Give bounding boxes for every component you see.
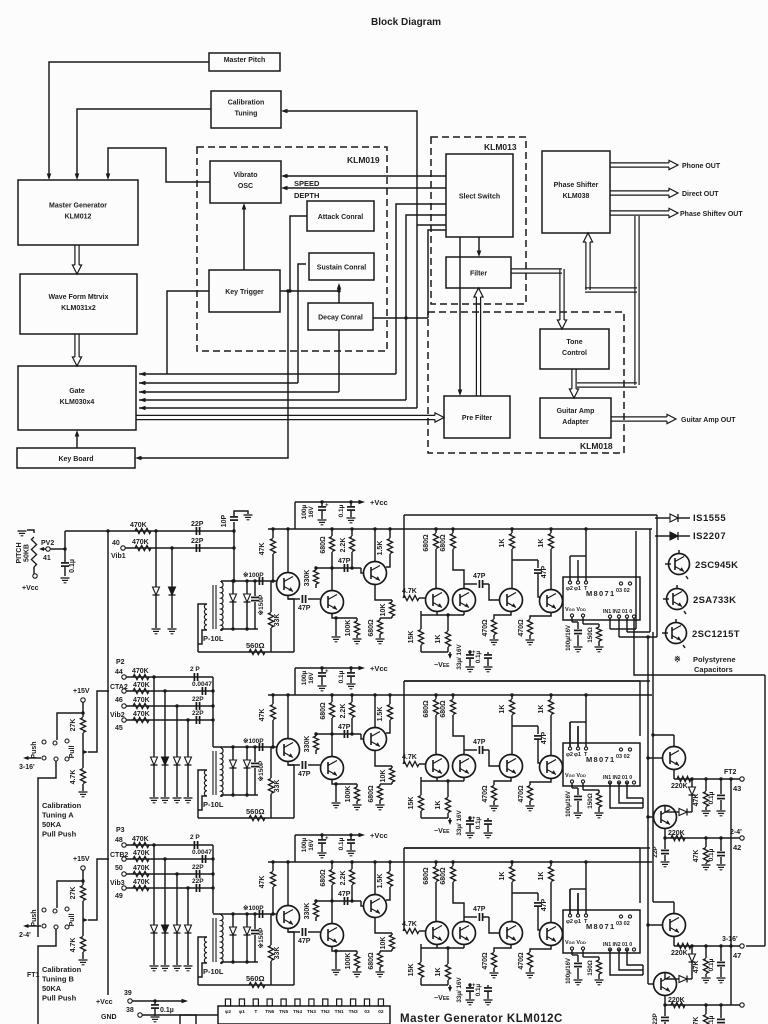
wire row1 input rail top <box>65 530 234 532</box>
svg-text:Key Board: Key Board <box>58 456 93 463</box>
capacitor 0.1u rail row2 <box>350 668 352 672</box>
potentiometer PV2 PITCH 50KB <box>31 537 36 567</box>
supply rail row3 <box>268 861 652 863</box>
loop bottom row1 <box>610 628 636 630</box>
IC top pin wires row1 <box>569 556 571 581</box>
resistor 220K a row2 <box>677 776 691 781</box>
transformer secondary leads row1 <box>220 581 222 582</box>
capacitor 22P row1 line2 <box>195 544 197 552</box>
svg-text:P2: P2 <box>116 659 125 666</box>
capacitor 0.1u out1 row3 <box>720 946 722 961</box>
wire Q1 emitter row3 <box>288 928 294 985</box>
svg-text:KLM018: KLM018 <box>580 441 613 451</box>
svg-text:100K: 100K <box>345 620 352 637</box>
arrow into Master Generator pin1 <box>47 174 52 181</box>
emitter join row1 <box>436 611 438 615</box>
transistor Q8 row2 2SC1215T <box>663 747 686 770</box>
transistor Q3 row3 2SC945K <box>364 895 387 918</box>
resistor 220K b row2 <box>671 835 685 840</box>
block Master Generator KLM012 <box>18 180 138 245</box>
svg-text:470K: 470K <box>133 697 150 704</box>
resistor 1K c3 row1 <box>511 529 513 533</box>
svg-text:15K: 15K <box>408 964 415 977</box>
svg-text:680Ω: 680Ω <box>368 952 375 970</box>
transformer primary leads row3 <box>198 937 207 985</box>
svg-text:P-10L: P-10L <box>203 800 224 809</box>
svg-text:47K: 47K <box>693 850 700 863</box>
input join vertical row3 <box>212 845 214 913</box>
svg-text:22P: 22P <box>192 864 204 871</box>
diode row2 d1 IS1555 <box>153 677 155 757</box>
svg-text:0.1µ: 0.1µ <box>708 791 715 804</box>
ground 10P <box>244 514 253 516</box>
wire Calibration Tuning to Master Generator <box>77 109 211 177</box>
svg-text:SPEED: SPEED <box>294 179 320 188</box>
svg-text:39: 39 <box>124 990 132 997</box>
bottom wire row3 <box>198 984 294 986</box>
diode IS1555 row1 a <box>155 531 157 587</box>
svg-text:KLM030x4: KLM030x4 <box>60 399 95 406</box>
svg-text:0.0047: 0.0047 <box>192 849 212 856</box>
diode row3 d2 IS2207 <box>164 859 166 925</box>
DIP pin 6 <box>295 999 300 1006</box>
svg-text:2SA733K: 2SA733K <box>693 595 736 606</box>
bus join row3 line <box>746 945 765 947</box>
svg-text:150Ω: 150Ω <box>587 627 594 643</box>
hollow arrow Master Generator to Wave Form Matrix <box>74 245 76 265</box>
transistor Q6 row2 2SC945K <box>500 755 523 778</box>
wire coupling node row3 <box>316 900 361 902</box>
legend transistor 2SC1215T <box>666 623 687 644</box>
block Tone Control <box>540 329 609 369</box>
rectifier diode a row3 <box>232 914 234 927</box>
svg-text:100µ: 100µ <box>301 837 308 852</box>
svg-text:M8071: M8071 <box>586 755 615 764</box>
wire 10K to 680 row1 <box>380 617 392 619</box>
svg-text:45: 45 <box>115 725 123 732</box>
block Decay Control <box>308 303 373 330</box>
resistor 470K row1 top <box>135 528 151 533</box>
ground 680 e row3 <box>376 971 385 973</box>
ground 470 e2 row3 <box>526 972 535 974</box>
transistor Q6 row1 2SC945K <box>500 589 523 612</box>
wire switch lower row2 <box>38 761 56 937</box>
svg-text:Tuning A: Tuning A <box>42 811 74 820</box>
legend transistor 2SA733K <box>667 589 688 610</box>
ground 100u vdd row1 <box>574 646 583 648</box>
wiper arrow row3 <box>83 918 88 922</box>
svg-text:15K: 15K <box>408 631 415 644</box>
svg-text:1K: 1K <box>538 705 545 714</box>
wire Q8 collector row2 <box>673 735 675 747</box>
wire DEPTH line <box>284 187 446 189</box>
svg-text:M8071: M8071 <box>586 589 615 598</box>
arrow Key Board to Gate <box>76 433 78 448</box>
svg-text:Vibrato: Vibrato <box>234 172 258 179</box>
wire Q8 collector row3 <box>673 902 675 914</box>
resistor 680 q2 row2 <box>331 695 333 702</box>
wire to switch row3 <box>57 881 83 908</box>
right margin bus vertical <box>764 675 766 946</box>
wire Q3 emitter row3 <box>375 917 392 933</box>
resistor 470K row2 line4 <box>126 719 213 721</box>
svg-text:680Ω: 680Ω <box>320 536 327 554</box>
ground diode row2 d2 <box>161 797 170 799</box>
block Master Pitch <box>209 53 280 71</box>
wire coupling node row2 <box>316 733 361 735</box>
svg-text:40: 40 <box>112 540 120 547</box>
transistor Q7 row3 2SC945K <box>540 923 563 946</box>
ground 100K row2 <box>353 804 362 806</box>
svg-text:PITCH: PITCH <box>16 543 23 564</box>
ground 0.1u vee row2 <box>484 832 493 834</box>
wire Q8 emitter row3 <box>673 936 675 946</box>
capacitor 0.1u bottom <box>154 1001 156 1004</box>
wire Q9 emitter row3 <box>664 995 666 1005</box>
dashed box KLM018 <box>428 312 624 453</box>
arrow into Master Generator pin2 <box>75 174 80 181</box>
transistor Q1 row1 2SC945K <box>277 573 300 596</box>
input join vertical row2 <box>212 677 214 747</box>
svg-text:680Ω: 680Ω <box>368 619 375 637</box>
svg-text:47K: 47K <box>259 709 266 722</box>
terminal 38 <box>138 1013 142 1017</box>
dashed box KLM019 <box>197 147 387 351</box>
svg-text:47P: 47P <box>473 739 486 746</box>
wire Q3 collector row3 <box>374 862 376 895</box>
wire riser Select Switch to Gate line4 <box>406 215 446 400</box>
resistor 47K bias row2 <box>272 695 274 704</box>
capacitor 100P row1 <box>258 577 260 585</box>
hollow arrow down into Tone Control <box>559 269 561 320</box>
svg-text:50KB: 50KB <box>24 544 31 562</box>
resistor 47K bias row3 <box>272 862 274 871</box>
svg-text:Pre Filter: Pre Filter <box>462 415 493 422</box>
resistor 15K row2 <box>420 777 422 795</box>
wire Master Pitch to Master Generator <box>49 62 209 177</box>
svg-text:2.2K: 2.2K <box>340 871 347 886</box>
svg-text:3-16': 3-16' <box>19 764 35 771</box>
wire wiper row2 <box>88 691 109 752</box>
svg-text:220K: 220K <box>671 783 688 790</box>
wire Select Switch to Pre Filter <box>459 237 461 393</box>
svg-text:Calibration: Calibration <box>42 801 82 810</box>
terminal out1 row3 <box>740 944 744 948</box>
block Guitar Amp Adapter <box>540 398 611 438</box>
diode row2 d2 IS2207 <box>164 691 166 757</box>
resistor 470K row3 line1 <box>126 844 213 846</box>
ground Q2 emitter row1 <box>335 618 337 636</box>
wire Vibrato OSC to Master Generator <box>108 148 210 182</box>
svg-text:OSC: OSC <box>238 183 253 190</box>
svg-text:47: 47 <box>733 951 741 960</box>
+Vcc arrow row1 <box>359 500 366 505</box>
svg-text:φ1: φ1 <box>574 752 581 758</box>
hollow arrow Direct OUT <box>610 190 669 192</box>
wire Q1 collector row1 <box>287 529 289 573</box>
wire SPEED line <box>284 175 446 177</box>
wire riser Select to Gate line5 <box>428 230 446 318</box>
svg-text:2-4': 2-4' <box>730 829 742 836</box>
svg-text:M8071: M8071 <box>586 922 615 931</box>
diode IS2207 row1 b <box>171 548 173 587</box>
resistor 470 e1 row3 <box>494 944 511 952</box>
arrow SPEED into Vibrato OSC <box>281 174 288 179</box>
svg-text:33µ/ 16V: 33µ/ 16V <box>456 810 463 836</box>
ground Q2 emitter row2 <box>335 784 337 802</box>
hollow arrow Phase Shifter OUT <box>610 210 669 212</box>
svg-text:Tone: Tone <box>566 339 582 346</box>
resistor 680 c2 row2 <box>452 695 454 699</box>
ground under 0.1u <box>61 577 70 579</box>
resistor 4.7K loop row3 <box>403 928 419 933</box>
pot wiper arrow <box>39 547 44 551</box>
svg-text:TN3: TN3 <box>307 1009 316 1015</box>
capacitor 22P row1 top <box>195 527 197 535</box>
svg-text:10K: 10K <box>380 937 387 950</box>
svg-text:220K: 220K <box>671 950 688 957</box>
svg-text:−VEE: −VEE <box>434 662 450 669</box>
svg-text:33µ/ 16V: 33µ/ 16V <box>456 977 463 1003</box>
resistor 1.5K row3 <box>389 862 391 871</box>
resistor 470K row3 line3 <box>126 873 213 875</box>
wire Q1 emitter row2 <box>288 761 294 818</box>
svg-text:100µ/16V: 100µ/16V <box>566 625 572 651</box>
capacitor 100u 16V row1 <box>321 502 323 506</box>
resistor 680 e row3 <box>379 951 381 953</box>
ground 100K row1 <box>353 638 362 640</box>
loop right verticals row1 <box>656 515 658 637</box>
loop wire top row2 <box>404 680 650 682</box>
ground 150 row1 <box>595 646 604 648</box>
svg-text:TN5: TN5 <box>279 1009 288 1015</box>
svg-text:44: 44 <box>115 669 123 676</box>
resistor 10K row1 <box>391 600 393 602</box>
resistor 470K row2 line3 <box>126 705 213 707</box>
wire Q8 base row2 <box>648 757 663 759</box>
wire Q1 collector row3 <box>287 862 289 906</box>
svg-text:Phase Shifter: Phase Shifter <box>554 182 599 189</box>
wire Q1 emitter row1 <box>288 595 294 652</box>
svg-text:03 02: 03 02 <box>616 921 630 927</box>
resistor 33K row2 <box>270 747 272 778</box>
output line2 row2 <box>665 837 740 839</box>
svg-text:−VEE: −VEE <box>434 995 450 1002</box>
svg-text:Direct OUT: Direct OUT <box>682 191 719 198</box>
ground 470 e1 row2 <box>490 805 499 807</box>
svg-text:φ1: φ1 <box>574 919 581 925</box>
capacitor 100P row3 <box>258 910 260 918</box>
resistor 470 e2 row3 <box>530 945 551 952</box>
ground 100u vdd row3 <box>574 979 583 981</box>
wire wiper row3 <box>88 859 109 920</box>
resistor 330K row1 <box>315 568 317 570</box>
+Vcc arrow row3 <box>359 833 366 838</box>
ground 0.1u out1 row3 <box>717 977 726 979</box>
svg-text:0.1µ: 0.1µ <box>338 504 345 517</box>
capacitor 150P row3 <box>254 914 256 929</box>
arrow -VEE row3 <box>449 985 451 988</box>
svg-text:φ2: φ2 <box>225 1009 231 1015</box>
resistor 470 e1 row2 <box>494 777 511 785</box>
svg-text:4.7K: 4.7K <box>402 588 417 595</box>
transistor Q1 row3 2SC945K <box>277 906 300 929</box>
terminal 44 row2 <box>122 675 126 679</box>
wire base node row1 <box>221 580 277 582</box>
svg-text:TN3: TN3 <box>349 1009 358 1015</box>
capacitor 22P row3 line3 <box>195 870 197 878</box>
svg-text:16V: 16V <box>308 839 315 851</box>
terminal +15V row3 <box>81 866 85 870</box>
capacitor 33u 16V row2 <box>469 818 471 820</box>
svg-text:100µ/16V: 100µ/16V <box>566 958 572 984</box>
transformer secondary leads row3 <box>220 914 222 915</box>
svg-text:FT1: FT1 <box>27 972 40 979</box>
capacitor 22P row2 line3 <box>195 702 197 710</box>
capacitor 0.0047 row2 <box>201 687 203 695</box>
resistor 470K Vib1 <box>135 545 151 550</box>
resistor 680 e row1 <box>379 618 381 620</box>
svg-text:VGG VDD: VGG VDD <box>565 940 586 946</box>
svg-text:47P: 47P <box>541 731 548 744</box>
svg-text:2.2K: 2.2K <box>340 704 347 719</box>
terminal 48 row3 <box>122 843 126 847</box>
transformer P-10L row3 <box>204 937 207 963</box>
wire 10P to ground hook <box>234 511 248 516</box>
arrow Gate line5 <box>139 406 146 411</box>
ground diode row3 d3 <box>173 965 182 967</box>
svg-text:VGG VDD: VGG VDD <box>565 773 586 779</box>
double line Gate to Pre Filter <box>136 414 435 416</box>
svg-text:0.1µ: 0.1µ <box>338 670 345 683</box>
svg-text:Push: Push <box>31 909 38 926</box>
svg-text:47P: 47P <box>473 906 486 913</box>
hollow arrow Wave Form Matrix to Gate <box>74 334 76 357</box>
capacitor 47P q1q2 row2 <box>288 764 300 766</box>
svg-text:100µ: 100µ <box>301 504 308 519</box>
resistor 1K c4 row1 <box>550 529 552 533</box>
svg-text:22P: 22P <box>191 538 204 545</box>
resistor 4.7K row3 <box>82 920 84 936</box>
resistor 560 row1 <box>249 649 265 654</box>
capacitor 47P q2q3 row3 <box>343 897 345 905</box>
capacitor 0.1u vee row3 <box>487 985 489 987</box>
svg-text:+: + <box>325 503 329 509</box>
resistor 220K a row3 <box>677 943 691 948</box>
svg-text:Decay Conral: Decay Conral <box>318 315 363 322</box>
svg-text:P-10L: P-10L <box>203 634 224 643</box>
svg-text:Pull Push: Pull Push <box>42 830 77 839</box>
svg-text:※150P: ※150P <box>257 760 265 781</box>
resistor 1.5K row2 <box>389 695 391 704</box>
svg-text:KLM019: KLM019 <box>347 155 380 165</box>
svg-text:KLM031x2: KLM031x2 <box>61 305 96 312</box>
arrow +Vcc bottom <box>182 999 189 1004</box>
emitter join row2 <box>436 777 438 781</box>
supply rail row1 <box>268 528 652 530</box>
hollow arrow Phone OUT <box>610 162 669 164</box>
wire pot top <box>27 530 34 533</box>
capacitor 47P q2q3 row2 <box>343 730 345 738</box>
arrow into Master Generator pin3 <box>106 174 111 181</box>
svg-text:470Ω: 470Ω <box>482 619 489 637</box>
resistor 4.7K loop row2 <box>403 761 419 766</box>
svg-text:03 02: 03 02 <box>616 754 630 760</box>
svg-text:2SC945K: 2SC945K <box>695 560 738 571</box>
wire coupling node row1 <box>316 567 361 569</box>
resistor 47K out1 row2 <box>705 779 707 791</box>
transistor Q5 row1 2SA733K <box>453 589 476 612</box>
svg-text:※100P: ※100P <box>243 571 264 579</box>
svg-text:1K: 1K <box>435 968 442 977</box>
svg-text:470Ω: 470Ω <box>518 952 525 970</box>
svg-text:03: 03 <box>364 1009 370 1015</box>
terminal 40 Vib1 <box>121 546 125 550</box>
transformer secondary leads row2 <box>220 747 222 748</box>
rectifier diode b row3 <box>246 914 248 927</box>
IC pins top row1 <box>568 581 571 584</box>
resistor 4.7K row2 <box>82 752 84 768</box>
svg-text:TN4: TN4 <box>293 1009 302 1015</box>
svg-text:16V: 16V <box>308 506 315 518</box>
svg-text:47P: 47P <box>298 771 311 778</box>
ground 470 e1 row1 <box>490 639 499 641</box>
svg-text:2 P: 2 P <box>190 666 200 673</box>
capacitor 0.1u out2 row3 <box>720 1005 722 1018</box>
wire Q3 collector row1 <box>374 529 376 562</box>
svg-text:150Ω: 150Ω <box>587 960 594 976</box>
wire node up to rail <box>64 531 66 549</box>
capacitor 100u 16V vdd row2 <box>571 783 573 788</box>
resistor 330K row2 <box>315 734 317 736</box>
svg-text:680Ω: 680Ω <box>320 702 327 720</box>
loop right vertical row2 <box>639 681 641 736</box>
wire base node row3 <box>213 913 277 915</box>
svg-text:φ2: φ2 <box>566 586 573 592</box>
terminal out2 row3 <box>740 1003 744 1007</box>
svg-text:0.1µ: 0.1µ <box>708 1015 715 1024</box>
capacitor 150P row1 <box>254 581 256 596</box>
svg-text:470K: 470K <box>133 682 150 689</box>
svg-text:1.5K: 1.5K <box>377 874 384 889</box>
resistor 100K row1 <box>356 618 358 621</box>
svg-text:DEPTH: DEPTH <box>294 191 319 200</box>
capacitor 0.0047 row3 <box>201 855 203 863</box>
resistor 470 e2 row2 <box>530 778 551 785</box>
svg-text:1K: 1K <box>499 872 506 881</box>
svg-text:0.0047: 0.0047 <box>192 681 212 688</box>
svg-text:φ1: φ1 <box>574 586 581 592</box>
svg-text:470Ω: 470Ω <box>518 785 525 803</box>
svg-text:P3: P3 <box>116 827 125 834</box>
transistor Q1 row2 2SC945K <box>277 739 300 762</box>
svg-text:47K: 47K <box>693 961 700 974</box>
resistor 47K out1 row3 <box>705 946 707 958</box>
svg-text:150Ω: 150Ω <box>587 793 594 809</box>
svg-text:FT2: FT2 <box>724 769 737 776</box>
ground 100u row3 <box>318 852 327 854</box>
svg-text:Tuning B: Tuning B <box>42 975 75 984</box>
bottom wire row2 <box>198 817 294 819</box>
svg-text:KLM012: KLM012 <box>65 214 92 221</box>
svg-text:1K: 1K <box>435 635 442 644</box>
svg-text:47P: 47P <box>298 605 311 612</box>
hollow arrow Tone Control to Guitar Amp Adapter <box>571 369 573 389</box>
svg-text:47K: 47K <box>693 794 700 807</box>
wire +15V down row3 <box>82 870 84 881</box>
svg-text:33K: 33K <box>274 947 281 960</box>
svg-text:680Ω: 680Ω <box>423 867 430 885</box>
